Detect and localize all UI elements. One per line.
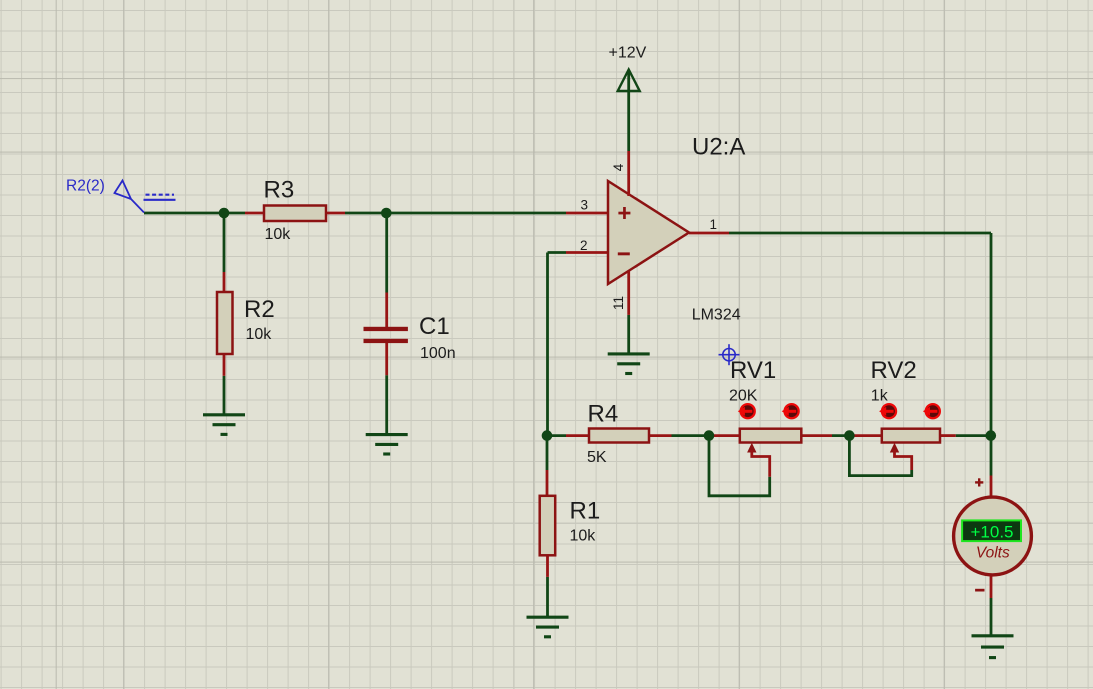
RV1 wiper arrow bbox=[747, 443, 770, 477]
resistor R2 pin stubs bbox=[223, 272, 226, 376]
wire: R1 top green bbox=[546, 436, 549, 470]
capacitor C1 plates bbox=[364, 327, 408, 343]
resistor R3 body bbox=[264, 206, 326, 222]
svg-text:Volts: Volts bbox=[976, 545, 1010, 562]
op-amp pin 2 stub bbox=[566, 251, 608, 254]
node: junction R4/RV1 bbox=[704, 430, 715, 441]
svg-text:20K: 20K bbox=[729, 388, 758, 405]
ground (voltmeter) bbox=[972, 636, 1014, 658]
wire: R1 bottom to ground bbox=[546, 577, 549, 617]
wire: +12V power vertical bbox=[627, 72, 630, 151]
resistor R3 pin stubs bbox=[245, 212, 345, 215]
capacitor C1 pin stubs bbox=[385, 293, 388, 376]
svg-text:100n: 100n bbox=[420, 345, 456, 362]
op-amp pin 1 output stub bbox=[689, 232, 729, 235]
wire: voltmeter bottom to ground bbox=[990, 598, 993, 636]
wire: pin2 horizontal bbox=[548, 251, 567, 254]
svg-text:10k: 10k bbox=[570, 528, 597, 545]
wire: R4 left bbox=[547, 434, 566, 437]
svg-text:R2: R2 bbox=[244, 296, 275, 323]
node: junction input/R2 bbox=[219, 208, 230, 219]
voltmeter minus terminal mark bbox=[975, 589, 984, 592]
potentiometer RV1 pin stubs bbox=[709, 434, 832, 437]
svg-text:4: 4 bbox=[611, 163, 626, 171]
wire: RV2 wiper loop green bbox=[849, 436, 911, 476]
wire: R4 right to RV1 node bbox=[672, 434, 710, 437]
resistor R1 pin stubs bbox=[546, 470, 549, 577]
wire: C1 bottom to ground bbox=[385, 375, 388, 434]
ground (R1) bbox=[527, 617, 569, 637]
wire: output vertical to voltmeter bbox=[990, 233, 993, 476]
svg-text:RV1: RV1 bbox=[730, 357, 776, 384]
potentiometer RV1 body bbox=[740, 429, 802, 443]
svg-text:2: 2 bbox=[580, 238, 588, 253]
node: junction feedback/R4/R1 bbox=[542, 430, 553, 441]
svg-text:5K: 5K bbox=[587, 449, 607, 466]
wire: RV1 right to RV2 node bbox=[832, 434, 851, 437]
origin crosshair marker bbox=[719, 344, 740, 365]
resistor R2 body bbox=[217, 292, 233, 354]
voltmeter LCD display bbox=[962, 520, 1021, 541]
RV2 decrement button bbox=[879, 403, 897, 419]
wire: input net horizontal to op-amp bbox=[345, 212, 566, 215]
voltmeter body circle bbox=[954, 497, 1032, 575]
probe dashed line bbox=[146, 194, 175, 196]
svg-text:C1: C1 bbox=[419, 313, 450, 340]
svg-text:10k: 10k bbox=[246, 326, 273, 343]
wire: feedback vertical bbox=[546, 253, 549, 436]
probe triangle bbox=[115, 181, 145, 213]
node: junction RV1/RV2 bbox=[844, 430, 855, 441]
svg-text:1k: 1k bbox=[871, 388, 889, 405]
svg-text:LM324: LM324 bbox=[692, 307, 741, 324]
potentiometer RV2 body bbox=[882, 429, 940, 443]
svg-text:R3: R3 bbox=[264, 177, 295, 204]
wire: R2 top branch bbox=[223, 213, 226, 272]
svg-text:U2:A: U2:A bbox=[692, 134, 745, 161]
wire: RV1 wiper loop green bbox=[709, 436, 770, 496]
op-amp minus input glyph bbox=[618, 252, 630, 255]
op-amp pin 3 stub bbox=[566, 212, 608, 215]
wire: input net horizontal left bbox=[144, 212, 245, 215]
wire: pin11 to ground bbox=[627, 315, 630, 354]
svg-text:10k: 10k bbox=[265, 226, 292, 243]
op-amp plus input glyph bbox=[618, 207, 630, 219]
op-amp pin 11 stub bbox=[627, 271, 630, 315]
wire: C1 top branch bbox=[385, 213, 388, 293]
resistor R4 pin stubs bbox=[566, 434, 672, 437]
RV2 increment button bbox=[923, 403, 941, 419]
probe solid line bbox=[144, 199, 176, 201]
ground (R2) bbox=[203, 415, 245, 435]
svg-text:+10.5: +10.5 bbox=[970, 522, 1013, 541]
svg-text:R2(2): R2(2) bbox=[66, 178, 105, 195]
op-amp pin 4 stub bbox=[627, 151, 630, 196]
potentiometer RV2 pin stubs bbox=[851, 434, 956, 437]
resistor R4 body bbox=[589, 429, 649, 443]
ground (op-amp pin 11) bbox=[608, 354, 650, 374]
svg-text:11: 11 bbox=[611, 296, 626, 310]
RV1 increment button bbox=[782, 403, 800, 419]
voltmeter plus terminal mark bbox=[975, 478, 983, 486]
resistor R1 body bbox=[540, 496, 556, 556]
svg-text:1: 1 bbox=[710, 217, 718, 232]
voltmeter pin stubs bbox=[990, 476, 993, 599]
ground (C1) bbox=[366, 435, 408, 454]
svg-text:+12V: +12V bbox=[609, 44, 647, 61]
power +12V arrow bbox=[618, 70, 640, 92]
svg-text:RV2: RV2 bbox=[871, 357, 917, 384]
wire: R2 bottom to ground bbox=[223, 376, 226, 415]
wire: RV2 right to output net bbox=[956, 434, 991, 437]
node: junction RV2/output bbox=[986, 430, 997, 441]
RV1 decrement button bbox=[738, 403, 756, 419]
svg-text:R4: R4 bbox=[588, 400, 619, 427]
op-amp U2:A triangle bbox=[608, 181, 689, 284]
node: junction input/C1 bbox=[381, 208, 392, 219]
RV2 wiper arrow bbox=[890, 443, 912, 470]
wire: op-amp output horizontal bbox=[729, 232, 991, 235]
svg-text:R1: R1 bbox=[570, 498, 601, 525]
svg-text:3: 3 bbox=[580, 198, 588, 213]
